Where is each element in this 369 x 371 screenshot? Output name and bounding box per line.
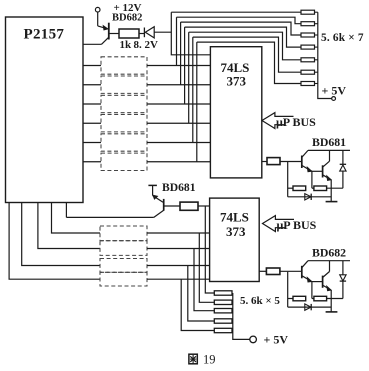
wire signal2 riser to nest <box>176 17 178 65</box>
resistor BD682 R_be2 <box>312 298 314 300</box>
svg-text:BD682: BD682 <box>312 246 346 260</box>
resistor R 1k <box>119 29 139 38</box>
wire to BD681 base <box>280 161 301 163</box>
isolator dashed box K7 (bottom) <box>100 226 147 241</box>
wire resistor to latch U3 <box>198 205 210 207</box>
diode BD681 D_ce freewheel <box>340 150 346 188</box>
node +5V terminal (top) <box>332 97 336 101</box>
node BD681 emitter terminal bar <box>326 201 338 203</box>
wire nest top 2 to resistor <box>177 17 302 24</box>
wire nest top 4 to resistor <box>185 27 301 47</box>
wire nest top 5 to resistor <box>189 32 301 60</box>
wire pull-up tap 5 (bottom bank) <box>181 279 214 330</box>
IC U3 74LS373 <box>210 198 260 281</box>
resistor 5.6k R12 (bottom bank) <box>214 328 232 332</box>
resistor 5.6k R5 (top bank) <box>301 58 315 62</box>
caption figure 19 <box>189 353 216 367</box>
diode BD682 D_be <box>288 304 332 310</box>
wire U3 output <box>259 270 266 272</box>
resistor 5.6k R2 (top bank) <box>301 22 315 26</box>
node BD682 emitter terminal bar <box>326 311 338 313</box>
resistor BD682 R_be1 <box>288 298 293 300</box>
wire K3 output to latch U2 <box>147 103 210 105</box>
wire K9 output to latch U3 <box>147 265 210 267</box>
resistor 5.6k R11 (bottom bank) <box>214 319 232 323</box>
svg-text:μP BUS: μP BUS <box>276 115 316 129</box>
transistor BD681 Q_b <box>323 150 332 180</box>
wire R5 to +5V rail <box>315 59 318 61</box>
wire P2157 tap 1 (bottom) <box>52 203 101 234</box>
svg-text:373: 373 <box>227 74 247 89</box>
wire K8 output to latch U3 <box>147 248 210 250</box>
isolator dashed box K1 (top) <box>101 57 147 74</box>
svg-text:8. 2V: 8. 2V <box>134 39 159 51</box>
wire P2157 tap 2 (bottom) <box>38 203 100 249</box>
wire P2157 to K6 <box>83 161 101 163</box>
wire BD681 collector to P2157 <box>66 216 153 218</box>
isolator dashed box K10 (bottom) <box>100 272 147 286</box>
resistor R base (BD681) <box>267 158 280 165</box>
svg-text:5. 6k × 7: 5. 6k × 7 <box>321 32 364 44</box>
isolator dashed box K6 (top) <box>101 153 147 170</box>
wire collector to P2157 <box>83 43 102 45</box>
wire R4 to +5V rail <box>315 46 318 48</box>
wire pull-up tap 2 (bottom bank) <box>199 233 214 302</box>
wire signal3 riser to nest <box>180 22 182 85</box>
svg-text:BD681: BD681 <box>312 135 346 149</box>
wire K10 output to latch U3 <box>147 278 210 280</box>
svg-text:1k: 1k <box>120 39 133 51</box>
wire BD681 collector top line <box>308 149 350 151</box>
svg-text:74LS: 74LS <box>220 210 249 225</box>
wire R2 to +5V rail <box>315 23 318 25</box>
wire BD681 R_be2 to emitter <box>327 187 343 189</box>
wire signal6 riser to nest <box>192 37 194 142</box>
wire K7 output to latch U3 <box>147 232 210 234</box>
transistor BD681 Q_a <box>302 150 312 171</box>
resistor 5.6k R3 (top bank) <box>301 33 315 37</box>
node +12V input terminal <box>95 7 100 12</box>
wire nest top 3 to resistor <box>181 22 301 35</box>
wire R6 to +5V rail <box>315 71 318 73</box>
wire BD682 Qa emitter to resistor node <box>311 282 313 299</box>
IC U1 P2157 <box>6 17 84 203</box>
resistor 5.6k R6 (top bank) <box>301 70 315 74</box>
wire nest top 6 to resistor <box>193 37 301 72</box>
wire signal7 riser to nest <box>196 42 198 162</box>
resistor 5.6k R7 (top bank) <box>301 82 315 86</box>
wire P2157 tap A <box>65 203 67 218</box>
transistor Q1 BD682 (top-left PNP) <box>98 23 119 45</box>
wire BD681 Qa emitter to resistor node <box>311 171 313 188</box>
isolator dashed box K4 (top) <box>101 115 147 132</box>
transistor BD682 Q_a <box>302 261 312 282</box>
svg-text:P2157: P2157 <box>24 26 65 42</box>
svg-text:19: 19 <box>203 353 216 367</box>
wire resistor to zener <box>139 33 145 35</box>
wire P2157 to K4 <box>83 122 101 124</box>
wire BD682 R_be2 to emitter <box>327 298 343 300</box>
diode BD682 D_ce freewheel <box>340 261 346 299</box>
wire U2 output <box>262 161 267 163</box>
bus arrow to U3 <box>263 216 295 232</box>
resistor R base (BD682) <box>266 268 280 275</box>
wire R1 to +5V rail <box>315 11 318 13</box>
wire BD682 collector top line <box>308 260 350 262</box>
wire BD681 Qa emitter to Qb base <box>312 170 323 172</box>
svg-text:+ 5V: + 5V <box>264 333 289 347</box>
wire R3 to +5V rail <box>315 34 318 36</box>
svg-text:+ 5V: + 5V <box>322 84 347 98</box>
resistor 5.6k R1 (top bank) <box>301 10 315 14</box>
svg-text:μP BUS: μP BUS <box>277 218 317 232</box>
isolator dashed box K9 (bottom) <box>100 259 147 273</box>
bus arrow to U2 <box>262 113 294 129</box>
diode D 8.2V zener <box>144 27 154 38</box>
wire from +12V terminal down <box>97 12 99 26</box>
wire signal1 vertical riser and latch input <box>171 12 210 55</box>
wire BD682 Qa emitter to Qb base <box>312 281 323 283</box>
wire BD681 emitter lead <box>330 180 332 202</box>
transistor Q2 BD681 (middle) <box>148 185 180 217</box>
wire nest top 7 to resistor <box>197 42 301 83</box>
isolator dashed box K3 (top) <box>101 95 147 112</box>
wire BD682 emitter lead <box>330 290 332 312</box>
wire signal5 riser to nest <box>188 32 190 123</box>
wire pull-up tap 1 (bottom bank) <box>205 206 214 293</box>
diode BD681 D_be <box>288 194 332 200</box>
IC U2 74LS373 <box>210 47 261 178</box>
node +5V terminal (bottom) <box>250 336 257 343</box>
wire P2157 to K2 <box>83 84 101 86</box>
isolator dashed box K2 (top) <box>101 76 147 93</box>
svg-text:373: 373 <box>226 224 246 239</box>
wire BD681 base node vertical <box>287 162 289 197</box>
wire P2157 tap 4 (bottom) <box>9 203 100 280</box>
wire P2157 tap 3 (bottom) <box>22 203 100 266</box>
wire K4 output to latch U2 <box>147 122 210 124</box>
resistor R base (middle BD681) <box>180 202 198 210</box>
wire nest top 1 to resistor <box>171 11 301 13</box>
svg-text:BD682: BD682 <box>112 13 142 24</box>
wire +5V rail (bottom) <box>233 293 250 339</box>
isolator dashed box K8 (bottom) <box>100 241 147 256</box>
wire signal4 riser to nest <box>184 27 186 104</box>
isolator dashed box K5 (top) <box>101 134 147 151</box>
wire K2 output to latch U2 <box>147 84 210 86</box>
transistor BD682 Q_b <box>323 261 332 291</box>
wire pull-up tap 4 (bottom bank) <box>188 266 215 322</box>
wire K5 output to latch U2 <box>147 142 210 144</box>
wire P2157 to K3 <box>83 103 101 105</box>
wire +5V rail (top) <box>318 12 332 98</box>
resistor BD681 R_be2 <box>312 187 314 189</box>
svg-text:5. 6k × 5: 5. 6k × 5 <box>240 295 280 307</box>
svg-text:BD681: BD681 <box>162 181 196 194</box>
wire zener output <box>154 31 171 33</box>
wire R7 to +5V rail <box>315 83 318 85</box>
resistor 5.6k R4 (top bank) <box>301 45 315 49</box>
wire K6 output to latch U2 <box>147 161 210 163</box>
resistor 5.6k R9 (bottom bank) <box>214 300 232 304</box>
resistor BD681 R_be1 <box>288 187 293 189</box>
wire pull-up tap 3 (bottom bank) <box>194 249 214 311</box>
resistor 5.6k R8 (bottom bank) <box>214 291 232 295</box>
wire P2157 to K1 <box>83 65 101 67</box>
wire K1 output to latch U2 <box>147 65 210 67</box>
wire BD682 base node vertical <box>287 272 289 307</box>
wire to BD682 base <box>280 270 301 272</box>
resistor 5.6k R10 (bottom bank) <box>214 309 232 313</box>
wire P2157 to K5 <box>83 142 101 144</box>
